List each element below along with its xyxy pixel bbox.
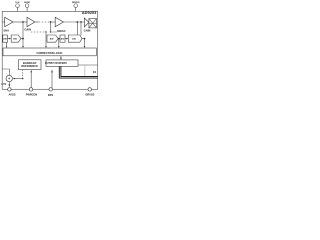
- wire DFS up to output buffers: [51, 72, 53, 88]
- svg-text:CORRECTION LOGIC: CORRECTION LOGIC: [37, 51, 63, 55]
- wire OTR out: [78, 64, 98, 66]
- A/D flash box: [89, 19, 97, 28]
- node stage1 out: [22, 21, 24, 23]
- ref amp U1: [6, 75, 12, 81]
- wire node to GAIN amp: [23, 21, 27, 23]
- svg-text:GAIN: GAIN: [24, 28, 31, 32]
- wire dashed continuation lower: [31, 31, 46, 33]
- svg-text:SHA: SHA: [3, 29, 9, 33]
- wire vertical to correction logic: [45, 32, 47, 47]
- svg-text:D/A: D/A: [72, 38, 76, 41]
- wire stage1 vertical to correction logic: [22, 21, 24, 47]
- wire lower stub to stage3: [51, 31, 58, 33]
- svg-text:D/A: D/A: [13, 38, 17, 41]
- svg-text:GAIN: GAIN: [84, 29, 91, 33]
- svg-text:0.5V: 0.5V: [1, 83, 6, 86]
- arrow A/D to D/A stage4: [65, 38, 67, 40]
- wire stage3 down to correction logic: [58, 39, 60, 47]
- wire input to SHA: [2, 21, 4, 23]
- wire ref amp to VREF pin: [8, 82, 10, 85]
- wire dashed continuation top: [39, 21, 51, 23]
- svg-text:A/D: A/D: [61, 38, 65, 41]
- D/A pentagon stage4: [68, 35, 82, 42]
- data bus out: [60, 66, 98, 77]
- svg-text:PWRCON: PWRCON: [26, 93, 38, 96]
- pin DFS: [49, 88, 52, 91]
- arrow A/D to D/A stage1: [8, 38, 10, 40]
- wire MDAC out to GAIN4: [64, 21, 85, 23]
- junction lower dashed: [45, 31, 46, 32]
- wire pentagon to node: [82, 38, 85, 40]
- wire dashed bandgap to ref amp: [22, 70, 24, 79]
- wire node to MDAC amp: [51, 21, 56, 23]
- wire node A down: [76, 22, 78, 35]
- A/D box stage4: [60, 35, 65, 42]
- svg-text:DFS: DFS: [48, 93, 54, 97]
- node A: [76, 21, 78, 23]
- wire D/A to node: [21, 38, 23, 40]
- svg-text:REFERENCE: REFERENCE: [21, 64, 38, 68]
- svg-text:10: 10: [93, 70, 97, 74]
- junction bandgap wire elbow: [22, 78, 23, 79]
- svg-text:AVDD: AVDD: [24, 1, 30, 4]
- svg-text:MDAC: MDAC: [57, 29, 65, 33]
- chip border: [2, 11, 98, 89]
- op-amp MDAC stage3: [55, 17, 63, 26]
- svg-text:A/D: A/D: [3, 38, 7, 41]
- svg-text:AD9203: AD9203: [82, 10, 97, 15]
- node B: [80, 21, 82, 23]
- svg-text:A/D: A/D: [50, 38, 54, 41]
- A/D box stage1: [3, 35, 8, 42]
- junction stage4 out: [84, 38, 86, 40]
- pin CLK: [16, 4, 20, 12]
- wire GAIN out: [34, 21, 39, 23]
- wire stage1 A/D down to correction logic: [6, 42, 8, 47]
- node stage chain: [50, 21, 52, 23]
- correction logic box: [3, 48, 96, 56]
- junction D/A out stage1: [22, 38, 24, 40]
- wire otr drop: [84, 65, 86, 76]
- output buffers box: [46, 60, 78, 66]
- wire vertical node down: [50, 22, 52, 32]
- pin REFSENSE: [29, 88, 32, 91]
- pin DRVSS: [88, 88, 91, 91]
- pin AVSS: [8, 88, 11, 91]
- pin DRVDD: [74, 4, 78, 12]
- D/A pentagon stage3: [47, 35, 58, 42]
- svg-text:DRVSS: DRVSS: [85, 92, 94, 96]
- bandgap reference box: [19, 60, 42, 70]
- op-amp GAIN stage4: [84, 18, 89, 27]
- wire left border to ref amp: [2, 69, 9, 75]
- wire stage4 down to correction logic: [84, 39, 86, 47]
- svg-text:DRVDD: DRVDD: [72, 2, 80, 4]
- svg-text:OUTPUT BUFFERS: OUTPUT BUFFERS: [45, 62, 67, 65]
- wire SHA out: [13, 21, 23, 23]
- wire REFSENSE pin up to bandgap: [30, 72, 32, 90]
- arrow correction logic to output buffers: [60, 56, 62, 59]
- junction stage3 out: [58, 38, 60, 40]
- svg-text:AVSS: AVSS: [8, 92, 15, 96]
- op-amp GAIN stage2: [27, 17, 35, 26]
- op-amp SHA: [5, 17, 13, 26]
- wire node B down: [80, 22, 82, 35]
- pin AVDD: [25, 4, 29, 12]
- D/A pentagon stage1: [11, 35, 21, 42]
- svg-text:CLK: CLK: [15, 2, 20, 4]
